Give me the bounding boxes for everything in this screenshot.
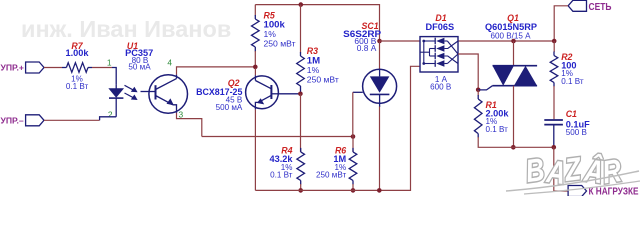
R4 designator	[281, 146, 292, 156]
R7 value 1.00k	[66, 48, 90, 58]
node junction	[299, 2, 304, 7]
Q2 value 45 В	[226, 96, 243, 105]
wire	[458, 54, 478, 90]
wire	[379, 107, 381, 191]
node junction	[476, 88, 481, 93]
U1 LED cathode pin	[100, 117, 117, 121]
wire	[300, 184, 302, 190]
R6 value 250 мВт	[316, 170, 346, 179]
U1 value 50 мА	[128, 62, 151, 71]
R2 value 1%	[561, 69, 573, 78]
C1 value 500 В	[566, 128, 587, 137]
R1 value 0.1 Вт	[486, 125, 509, 134]
C1 value 0.1uF	[566, 120, 590, 130]
resistor R2	[550, 52, 558, 87]
U1 designator	[127, 41, 138, 51]
node junction	[377, 188, 382, 193]
D1 value 1 А	[435, 75, 448, 84]
svg-text:250 мВт: 250 мВт	[316, 170, 346, 179]
D1 designator	[435, 13, 446, 23]
capacitor C1	[544, 120, 563, 147]
R5 value 100k	[264, 20, 286, 31]
R4 value 1%	[281, 163, 293, 172]
resistor R3	[297, 52, 305, 93]
wire	[92, 67, 112, 69]
U1 value 80 В	[132, 56, 149, 65]
svg-text:250 мВт: 250 мВт	[307, 74, 339, 84]
wire	[513, 86, 515, 148]
wire	[352, 92, 354, 136]
wire	[300, 94, 302, 152]
port UPR-	[1, 115, 45, 126]
SC1 value 0.8 А	[357, 43, 377, 53]
svg-text:2: 2	[108, 109, 113, 119]
wire	[458, 40, 554, 42]
svg-text:50 мА: 50 мА	[128, 62, 151, 71]
wire	[255, 5, 379, 41]
svg-text:600 В/15 А: 600 В/15 А	[490, 32, 531, 41]
wire	[554, 147, 568, 191]
svg-text:1.00k: 1.00k	[66, 48, 90, 58]
R7 value 0.1 Вт	[66, 82, 89, 91]
wire	[254, 5, 256, 16]
node junction	[511, 145, 516, 150]
node junction	[377, 39, 382, 44]
SC1 value 600 В	[354, 36, 376, 46]
port К НАГРУЗКЕ	[568, 186, 639, 198]
U1 phototransistor	[141, 75, 188, 114]
Q2 designator	[228, 78, 240, 88]
D1 value 600 В	[430, 83, 451, 92]
svg-text:0.1 Вт: 0.1 Вт	[486, 125, 509, 134]
wire	[553, 41, 555, 52]
wire	[177, 67, 256, 75]
svg-text:500 мА: 500 мА	[216, 103, 243, 112]
svg-text:1: 1	[107, 58, 112, 68]
R7 designator	[71, 41, 83, 51]
Q2 value 500 мА	[216, 103, 243, 112]
R5 designator	[264, 10, 275, 20]
wire	[352, 184, 354, 190]
wire	[300, 93, 302, 94]
wire	[352, 137, 354, 152]
svg-text:0.1 Вт: 0.1 Вт	[66, 82, 89, 91]
node junction	[351, 134, 356, 139]
R1 value 1%	[486, 117, 498, 126]
resistor R5	[252, 15, 260, 52]
resistor R1	[474, 95, 482, 138]
wire	[380, 40, 421, 42]
svg-text:250 мВт: 250 мВт	[264, 38, 296, 48]
R6 designator	[335, 146, 346, 156]
wire	[254, 109, 256, 190]
wire	[44, 119, 100, 121]
wire	[554, 6, 568, 41]
triac Q1	[478, 66, 537, 90]
wire	[300, 5, 302, 53]
node junction	[552, 145, 557, 150]
wire	[513, 41, 515, 66]
D1 part DF06S	[425, 22, 454, 32]
node junction	[253, 65, 258, 70]
node junction	[351, 188, 356, 193]
R2 designator	[561, 52, 572, 62]
R4 value 0.1 Вт	[270, 170, 293, 179]
port СЕТЬ	[568, 0, 611, 13]
svg-text:DF06S: DF06S	[425, 22, 454, 32]
R3 value 250 мВт	[307, 74, 339, 84]
wire	[44, 67, 62, 69]
R5 value 1%	[264, 29, 277, 39]
U1 pin 3	[179, 109, 184, 119]
Q1 value 600 В/15 А	[490, 32, 531, 41]
Q1 part Q6015N5RP	[485, 22, 537, 32]
resistor R4	[297, 148, 305, 185]
node junction	[511, 39, 516, 44]
transistor Q2	[246, 75, 279, 109]
svg-text:УПР.–: УПР.–	[1, 116, 24, 126]
bridge rectifier D1	[420, 37, 458, 72]
svg-text:3: 3	[179, 109, 184, 119]
U1 part PC357	[125, 48, 153, 58]
svg-text:4: 4	[167, 58, 172, 68]
wire	[379, 41, 381, 70]
SC1 part S6S2RP	[343, 29, 381, 39]
R5 value 250 мВт	[264, 38, 296, 48]
R2 value 100	[561, 61, 576, 71]
watermark BAZAR logo	[506, 151, 640, 194]
U1 emission arrows	[125, 85, 138, 100]
svg-text:C1: C1	[566, 109, 577, 119]
svg-text:B: B	[524, 152, 547, 190]
wire	[255, 66, 420, 190]
R2 value 0.1 Вт	[561, 77, 584, 86]
R3 value 1%	[307, 65, 320, 75]
R4 value 43.2k	[270, 154, 294, 164]
R7 value 1%	[71, 74, 83, 83]
wire	[279, 93, 301, 95]
R6 value 1%	[334, 163, 346, 172]
R3 value 1M	[307, 55, 320, 66]
wire	[478, 137, 554, 147]
svg-text:СЕТЬ: СЕТЬ	[589, 2, 612, 13]
wire	[177, 113, 202, 137]
U1 pin 1	[107, 58, 112, 68]
svg-text:500 В: 500 В	[566, 128, 587, 137]
wire	[477, 90, 479, 96]
U1 pin 2	[108, 109, 113, 119]
svg-text:600 В: 600 В	[430, 83, 451, 92]
wire	[254, 68, 256, 75]
svg-text:0.8 А: 0.8 А	[357, 43, 377, 53]
svg-text:0.1 Вт: 0.1 Вт	[561, 77, 584, 86]
R3 designator	[307, 46, 318, 56]
R1 designator	[486, 100, 497, 110]
SC1 designator	[361, 21, 378, 31]
node junction	[298, 92, 303, 97]
U1 pin 4	[167, 58, 172, 68]
wire	[202, 136, 353, 138]
port UPR+	[1, 62, 45, 73]
optocoupler U1 LED	[109, 84, 123, 117]
Q2 part BCX817-25	[196, 87, 242, 97]
svg-text:УПР.+: УПР.+	[1, 62, 24, 72]
node junction	[298, 188, 303, 193]
node junction	[552, 39, 557, 44]
resistor R7	[62, 63, 92, 73]
svg-text:1%: 1%	[307, 65, 320, 75]
U1 LED anode pin	[112, 68, 116, 85]
Q1 designator	[507, 13, 519, 23]
thyristor SC1	[353, 69, 397, 107]
svg-text:инж. Иван Иванов: инж. Иван Иванов	[21, 16, 231, 42]
R6 value 1M	[333, 154, 346, 164]
wire	[254, 51, 256, 67]
C1 designator	[566, 109, 577, 119]
svg-text:0.1 Вт: 0.1 Вт	[270, 170, 293, 179]
resistor R6	[349, 148, 357, 185]
R1 value 2.00k	[486, 108, 510, 118]
svg-text:Q6015N5RP: Q6015N5RP	[485, 22, 537, 32]
wire	[553, 86, 555, 119]
